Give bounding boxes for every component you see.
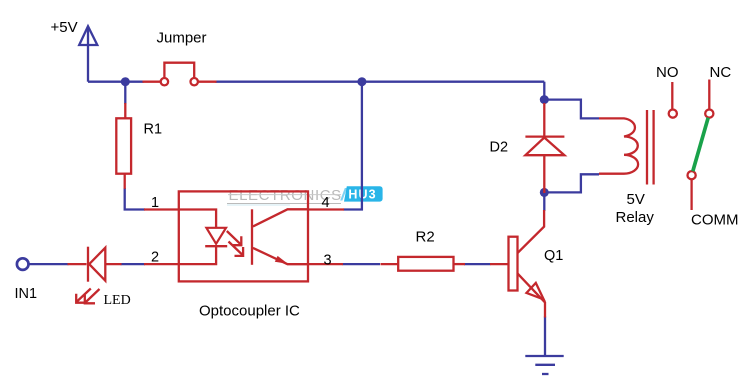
svg-text:NO: NO (656, 64, 679, 81)
svg-text:IN1: IN1 (15, 286, 38, 302)
svg-text:Q1: Q1 (544, 248, 563, 264)
svg-text:+5V: +5V (51, 19, 78, 36)
svg-text:3: 3 (324, 253, 332, 269)
svg-text:NC: NC (710, 64, 732, 81)
svg-text:Jumper: Jumper (157, 30, 207, 47)
svg-text:Optocoupler IC: Optocoupler IC (199, 303, 300, 320)
svg-text:4: 4 (322, 195, 330, 211)
svg-text:R2: R2 (416, 229, 435, 246)
svg-text:2: 2 (151, 250, 159, 266)
svg-text:R1: R1 (144, 122, 163, 138)
svg-text:Relay: Relay (616, 209, 655, 226)
svg-text:1: 1 (151, 195, 159, 211)
svg-text:COMM: COMM (691, 212, 739, 229)
svg-text:5V: 5V (627, 191, 645, 208)
svg-text:D2: D2 (490, 140, 509, 156)
svg-text:LED: LED (104, 293, 131, 308)
